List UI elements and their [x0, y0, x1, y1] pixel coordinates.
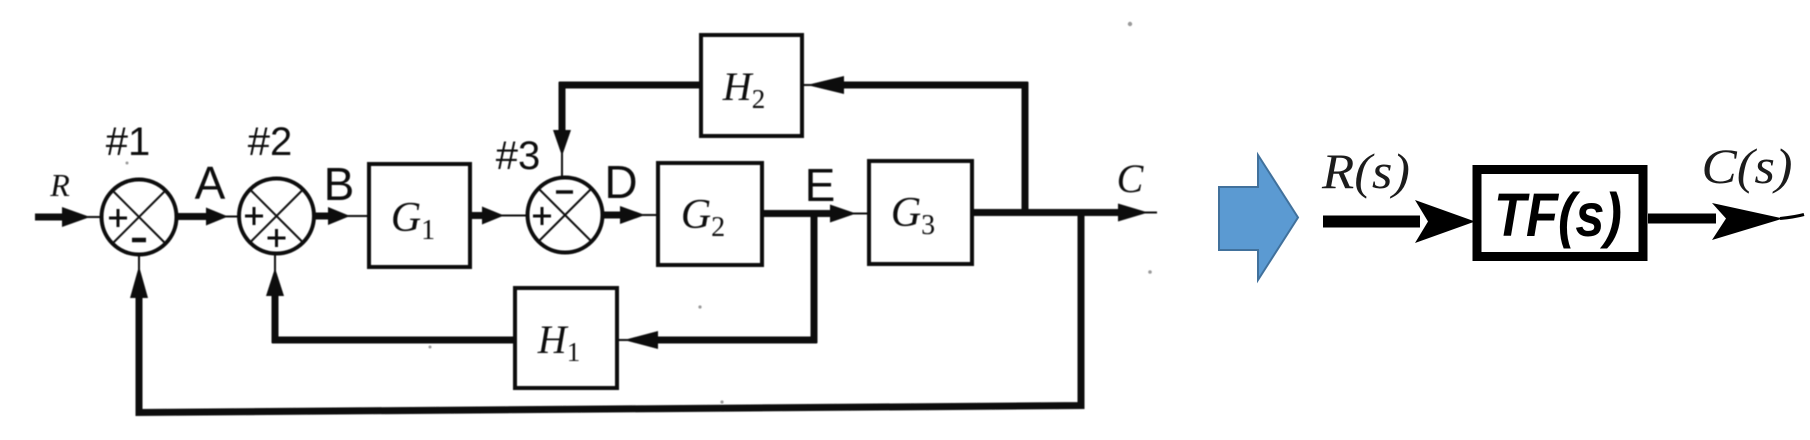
svg-text:C: C	[1117, 156, 1145, 201]
svg-text:R(s): R(s)	[1321, 143, 1410, 199]
wire: R input arrow into junction 1	[35, 207, 102, 227]
svg-text:B: B	[324, 158, 355, 210]
svg-text:C(s): C(s)	[1702, 138, 1793, 194]
svg-text:G2: G2	[681, 192, 725, 243]
summing junction #3	[528, 178, 603, 253]
svg-text:#1: #1	[106, 120, 151, 164]
wire: junction 2 to block G1	[314, 207, 369, 225]
svg-text:D: D	[604, 156, 637, 208]
wire: G1 to junction 3	[470, 207, 527, 225]
wire: E tap down to H1	[617, 214, 817, 350]
summing junction #1	[102, 180, 177, 255]
wire: thick arrow into TF(s)	[1323, 200, 1475, 243]
svg-text:H1: H1	[537, 317, 580, 367]
block H2	[701, 35, 802, 136]
block G3	[869, 161, 972, 264]
scan speck dots	[126, 22, 1152, 404]
summing junction #2	[239, 179, 314, 254]
svg-text:#2: #2	[248, 120, 293, 164]
block TF(s)	[1477, 170, 1643, 257]
svg-text:R: R	[49, 167, 70, 203]
svg-text:A: A	[195, 157, 226, 209]
wire: feedback tap up to H2	[802, 76, 1028, 213]
wire: H1 to junction 2 (up arrow)	[266, 254, 515, 343]
svg-text:G1: G1	[391, 195, 435, 246]
wire: output line to C	[972, 204, 1157, 222]
big blue arrow (transform symbol)	[1219, 155, 1298, 280]
svg-text:H2: H2	[722, 64, 765, 114]
wire: outer feedback from C line to junction 1	[130, 213, 1081, 413]
wire: H2 to junction 3 (down arrow)	[553, 82, 701, 177]
wire: G2 to G3 with node E	[762, 205, 869, 223]
svg-text:TF(s): TF(s)	[1494, 181, 1622, 249]
wire: junction 3 to block G2	[603, 206, 659, 224]
block G1	[369, 164, 470, 267]
wire: junction 1 to junction 2	[177, 208, 240, 226]
svg-text:G3: G3	[891, 190, 935, 241]
svg-text:E: E	[805, 159, 836, 211]
wire: thick arrow out of TF(s)	[1648, 203, 1804, 240]
svg-text:#3: #3	[496, 134, 541, 178]
block G2	[658, 163, 762, 265]
block H1	[515, 288, 617, 388]
